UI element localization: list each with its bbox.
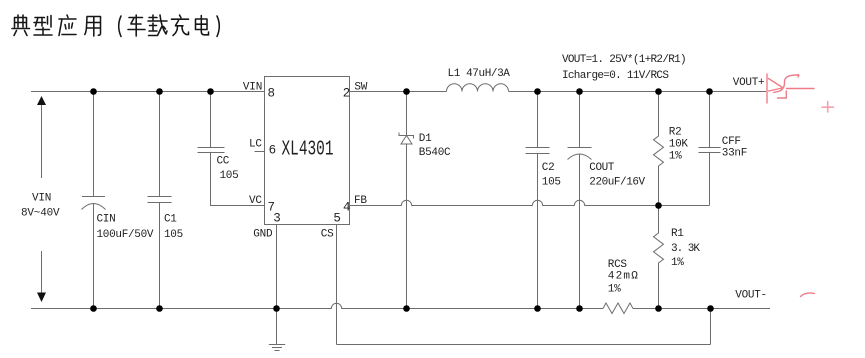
label XL4301 (282, 138, 334, 162)
pin 6 stub LC (255, 151, 265, 153)
node dot FB/R2 (655, 202, 662, 209)
svg-text:42mΩ: 42mΩ (608, 270, 639, 282)
capacitor COUT (568, 92, 592, 309)
svg-text:105: 105 (220, 170, 239, 182)
pin 4 label FB (343, 195, 367, 215)
label VOUT- (735, 290, 767, 302)
svg-text:CC: CC (217, 155, 230, 167)
wire bottom rail left with CS hop (31, 303, 603, 308)
wire L1 to VOUT+ (509, 91, 767, 93)
ground (269, 345, 285, 351)
svg-text:RCS: RCS (608, 259, 628, 271)
arrow VIN up (37, 96, 46, 178)
svg-text:4: 4 (343, 201, 351, 215)
label RCS 42mOhm 1% (608, 259, 639, 296)
diode D1 B540C (399, 92, 414, 309)
svg-text:3. 3K: 3. 3K (671, 243, 700, 255)
label CC 105 (217, 155, 239, 182)
svg-text:220uF/16V: 220uF/16V (589, 177, 645, 189)
label R1 3.3K 1% (671, 228, 700, 269)
wire top rail VIN (31, 91, 265, 93)
svg-text:VOUT+: VOUT+ (733, 77, 765, 89)
svg-text:3: 3 (273, 212, 281, 226)
svg-text:CIN: CIN (97, 214, 116, 226)
svg-text:VC: VC (249, 195, 262, 207)
label L1 47uH/3A (448, 68, 511, 80)
svg-text:8: 8 (268, 87, 276, 101)
char 车 (128, 15, 145, 36)
label COUT 220uF/16V (589, 162, 645, 189)
char 电 (196, 16, 209, 35)
IC U1 XL4301 body (265, 77, 350, 225)
label CFF 33nF (722, 136, 747, 160)
svg-text:33nF: 33nF (722, 147, 747, 159)
label D1 B540C (419, 133, 451, 159)
svg-text:L1 47uH/3A: L1 47uH/3A (448, 68, 511, 80)
char 典 (12, 15, 30, 36)
svg-text:COUT: COUT (589, 162, 614, 174)
inductor L1 (447, 84, 509, 92)
svg-text:VIN: VIN (243, 81, 262, 93)
svg-text:XL4301: XL4301 (282, 138, 334, 162)
svg-text:R2: R2 (669, 127, 682, 139)
char 型 (34, 16, 52, 36)
svg-text:5: 5 (333, 212, 341, 226)
label VIN 8V~40V (21, 193, 60, 220)
fullwidth open paren (119, 16, 121, 37)
label R2 10K 1% (669, 127, 689, 163)
char 用 (85, 17, 101, 37)
label C1 105 (164, 214, 183, 241)
svg-text:C2: C2 (542, 162, 555, 174)
node dots bottom rail (90, 305, 714, 312)
svg-text:2: 2 (343, 87, 351, 101)
char 载 (148, 15, 167, 36)
pin 5 label CS (321, 212, 341, 241)
svg-text:1%: 1% (671, 257, 684, 269)
red annotation plus (822, 102, 834, 113)
fullwidth close paren (217, 16, 219, 37)
svg-text:105: 105 (542, 177, 561, 189)
svg-text:1%: 1% (669, 150, 682, 162)
wire FB line with hops (350, 200, 710, 205)
svg-text:B540C: B540C (419, 147, 451, 159)
svg-text:10K: 10K (669, 139, 689, 151)
svg-text:GND: GND (253, 229, 273, 241)
label C2 105 (542, 162, 561, 189)
arrow VIN down (37, 251, 46, 302)
svg-text:105: 105 (164, 229, 183, 241)
capacitor CFF (699, 92, 721, 206)
svg-text:VIN: VIN (32, 193, 51, 205)
pin 3 label GND (253, 212, 281, 241)
svg-text:C1: C1 (164, 214, 177, 226)
capacitor C1 (148, 92, 172, 309)
wire GND pin3 drop (276, 225, 278, 345)
svg-text:6: 6 (269, 144, 277, 158)
svg-text:CS: CS (321, 229, 334, 241)
char 充 (172, 15, 189, 36)
capacitor CIN (82, 92, 106, 309)
char 应 (59, 15, 76, 36)
pin 7 label VC (249, 195, 275, 215)
wire SW to L1 (350, 91, 447, 93)
title 典型应用（车载充电） (12, 15, 219, 37)
svg-text:Icharge=0. 11V/RCS: Icharge=0. 11V/RCS (562, 70, 669, 82)
red annotation tick near VOUT- (801, 293, 815, 297)
svg-text:LC: LC (249, 139, 262, 151)
red annotation transistor sketch (767, 74, 814, 103)
svg-text:1%: 1% (608, 284, 621, 296)
capacitor CC (198, 92, 265, 206)
resistor R1 (654, 206, 664, 309)
annotation VOUT formula (562, 54, 686, 82)
resistor RCS (603, 303, 633, 314)
label VOUT+ (733, 77, 765, 89)
pin 2 label SW (343, 81, 368, 100)
pin 8 label VIN (243, 81, 275, 100)
resistor R2 (654, 92, 664, 206)
wire bottom rail right (633, 308, 770, 310)
label CIN 100uF/50V (97, 214, 154, 241)
svg-text:D1: D1 (419, 133, 432, 145)
svg-text:R1: R1 (671, 228, 684, 240)
svg-text:100uF/50V: 100uF/50V (97, 229, 154, 241)
capacitor C2 (526, 92, 550, 309)
svg-text:VOUT=1. 25V*(1+R2/R1): VOUT=1. 25V*(1+R2/R1) (562, 54, 686, 66)
pin 6 label LC (249, 139, 276, 158)
svg-text:8V~40V: 8V~40V (21, 208, 60, 220)
wire CS pin5 return (337, 225, 711, 345)
node dots top rail (90, 88, 713, 95)
svg-text:VOUT-: VOUT- (735, 290, 767, 302)
svg-text:CFF: CFF (722, 136, 741, 148)
